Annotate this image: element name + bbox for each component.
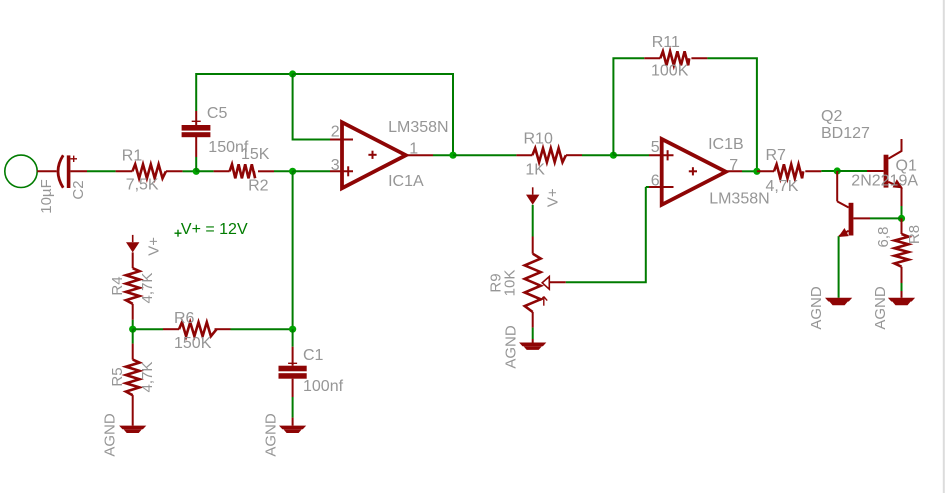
svg-text:R6: R6 xyxy=(174,310,195,327)
svg-text:3: 3 xyxy=(331,157,340,174)
svg-text:10K: 10K xyxy=(502,270,519,297)
wire Q1 emitter down xyxy=(901,188,903,206)
wire C1 to ground xyxy=(292,397,294,418)
ground AGND (R5) xyxy=(119,426,146,430)
svg-text:AGND: AGND xyxy=(503,325,520,369)
trimmer R9 10K xyxy=(525,237,541,328)
svg-text:2N2219A: 2N2219A xyxy=(851,172,918,189)
svg-text:4,7K: 4,7K xyxy=(139,273,156,304)
svg-text:R10: R10 xyxy=(524,130,553,147)
wire IC1A output pin 1 xyxy=(406,154,433,156)
V+ supply symbol above R4 xyxy=(132,235,134,242)
svg-text:R11: R11 xyxy=(652,34,680,51)
wire R1 to node A xyxy=(183,170,197,172)
svg-text:BD127: BD127 xyxy=(821,125,870,142)
svg-text:AGND: AGND xyxy=(102,413,119,457)
wire V+ to R9 xyxy=(532,205,534,237)
pin 2 lead with minus mark xyxy=(330,139,353,141)
wiper arrow of R9 xyxy=(542,277,549,290)
svg-text:AGND: AGND xyxy=(263,413,280,457)
svg-text:R5: R5 xyxy=(109,367,126,386)
wire IC1B output pin 7 xyxy=(726,170,742,172)
svg-text:R4: R4 xyxy=(109,276,126,295)
wire R8 to ground xyxy=(901,283,903,291)
node J junction xyxy=(129,326,136,333)
transistor Q2 BD127 xyxy=(837,201,853,237)
svg-text:1K: 1K xyxy=(525,162,545,179)
capacitor C1 100nf xyxy=(279,329,307,397)
svg-text:7,5K: 7,5K xyxy=(126,177,159,194)
svg-text:IC1A: IC1A xyxy=(388,173,424,190)
ground AGND (Q2) xyxy=(825,298,852,302)
node G junction xyxy=(834,167,841,174)
node A junction xyxy=(193,168,200,175)
svg-text:V+ = 12V: V+ = 12V xyxy=(181,221,248,238)
svg-text:IC1B: IC1B xyxy=(708,136,744,153)
resistor R8 6,8 xyxy=(895,218,909,283)
ground AGND (R8) xyxy=(888,298,915,302)
svg-text:V+: V+ xyxy=(545,188,562,207)
resistor R6 150K xyxy=(133,322,231,336)
node D output junction xyxy=(449,152,456,159)
wire node C to IC1A pin 3 xyxy=(293,170,330,172)
wire IC1B pin 6 to wiper of R9 xyxy=(646,186,649,188)
wire feedback rail to output drop xyxy=(293,74,453,155)
pin 5 lead with plus mark xyxy=(649,154,674,156)
svg-text:4,7K: 4,7K xyxy=(766,178,799,195)
wire node G to Q1 base xyxy=(837,170,867,172)
V+ supply symbol above R9 xyxy=(532,187,534,194)
svg-text:AGND: AGND xyxy=(872,286,889,330)
svg-text:R1: R1 xyxy=(122,148,143,165)
svg-text:C2: C2 xyxy=(70,180,87,199)
node F junction xyxy=(753,168,760,175)
svg-text:15K: 15K xyxy=(241,146,270,163)
label V+ = 12V net annotation xyxy=(175,230,182,237)
svg-text:C1: C1 xyxy=(303,347,324,364)
wire node H to Q2 base xyxy=(870,217,902,219)
wire R2 to node C xyxy=(274,170,293,172)
wire node B down to IC1A pin 2 xyxy=(293,74,330,140)
svg-text:R7: R7 xyxy=(766,147,787,164)
wire R11 to output node F xyxy=(707,58,757,171)
wire R10 to node E xyxy=(582,154,613,156)
resistor R7 4,7K xyxy=(757,164,821,178)
resistor R11 100K xyxy=(644,51,707,65)
svg-text:10µF: 10µF xyxy=(38,179,55,214)
wire node D to R10 xyxy=(453,154,516,156)
wire mic to C2 xyxy=(37,170,56,172)
wire node E up to R11 feedback xyxy=(613,58,644,155)
wire Q2 emitter to ground xyxy=(838,236,840,298)
node B junction on feedback rail xyxy=(289,70,296,77)
svg-text:5: 5 xyxy=(651,139,660,156)
resistor R4 4,7K xyxy=(126,252,140,319)
op-amp IC1B LM358N xyxy=(662,139,726,205)
svg-text:4,7K: 4,7K xyxy=(139,362,156,393)
resistor R1 7,5K xyxy=(116,164,183,178)
svg-text:R8: R8 xyxy=(906,225,923,244)
window edge line xyxy=(943,0,945,493)
wire node E to IC1B pin 5 xyxy=(613,154,649,156)
ground AGND (C1) xyxy=(279,426,306,430)
node C junction xyxy=(289,168,296,175)
resistor R10 1K xyxy=(516,148,582,162)
svg-text:LM358N: LM358N xyxy=(388,119,448,136)
resistor R2 15K xyxy=(196,164,274,178)
trimmer adjust arrow xyxy=(540,297,547,306)
resistor R5 4,7K xyxy=(126,329,140,425)
svg-text:LM358N: LM358N xyxy=(709,191,769,208)
svg-text:2: 2 xyxy=(331,124,340,141)
microphone input MIC xyxy=(5,155,37,187)
node K junction xyxy=(289,326,296,333)
node E junction xyxy=(610,152,617,159)
svg-text:AGND: AGND xyxy=(808,286,825,330)
wire R6 to node K xyxy=(231,328,293,330)
wire R7 to node G xyxy=(821,170,837,172)
svg-text:150K: 150K xyxy=(174,335,212,352)
svg-text:R2: R2 xyxy=(248,177,269,194)
pin 6 lead with minus mark xyxy=(649,186,674,188)
wire C2 to R1 xyxy=(70,170,87,172)
svg-text:V+: V+ xyxy=(146,237,163,256)
pin 3 lead with plus mark xyxy=(330,170,353,172)
capacitor C2 10uF polarized xyxy=(58,155,77,188)
svg-text:Q2: Q2 xyxy=(821,108,842,125)
wire node A up to C5 xyxy=(195,157,197,171)
wire node C down to bias node xyxy=(292,171,294,329)
svg-text:6,8: 6,8 xyxy=(875,227,892,248)
wire R4 to node J xyxy=(132,320,134,329)
capacitor C5 150nf xyxy=(182,111,211,137)
ground AGND (R9) xyxy=(519,343,546,347)
op-amp IC1A LM358N xyxy=(342,122,406,188)
svg-text:C5: C5 xyxy=(207,105,228,122)
wire node G down to Q2 collector xyxy=(836,171,838,201)
svg-text:100K: 100K xyxy=(651,63,689,80)
wire R9 to ground xyxy=(532,328,534,339)
svg-text:100nf: 100nf xyxy=(303,378,344,395)
wire C5 top to feedback rail xyxy=(196,74,292,111)
transistor Q1 2N2219A xyxy=(884,139,903,188)
node H junction xyxy=(898,215,905,222)
